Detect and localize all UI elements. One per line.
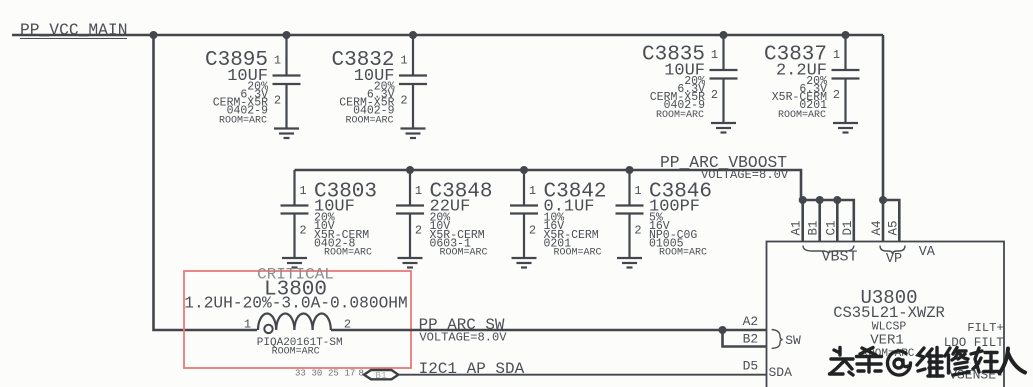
svg-text:FILT+: FILT+ <box>967 321 1004 335</box>
svg-text:ROOM=ARC: ROOM=ARC <box>324 248 372 259</box>
svg-text:ROOM=ARC: ROOM=ARC <box>272 347 320 358</box>
capacitor C3832 <box>331 49 407 127</box>
capacitor C3848 <box>415 181 493 259</box>
op-amp U3800 IC box CS35L21-XWZR <box>743 242 1005 387</box>
ground symbol (C3837) <box>833 123 858 133</box>
wire vertical feed from PP_VCC_MAIN down to L3800 <box>154 35 258 330</box>
svg-text:B1: B1 <box>375 370 387 381</box>
wire PP_VCC_MAIN rail <box>12 34 883 37</box>
svg-text:CS35L21-XWZR: CS35L21-XWZR <box>833 304 945 322</box>
ground symbol (C3848) <box>398 258 423 268</box>
node junction A1 <box>799 196 807 204</box>
inductor L3800 <box>184 279 407 358</box>
svg-text:ROOM=ARC: ROOM=ARC <box>659 248 707 259</box>
bus reference numbers <box>295 369 364 379</box>
capacitor C3895 symbol plates <box>273 76 301 85</box>
狂 <box>971 348 998 372</box>
wire VBST pin bus <box>801 200 854 242</box>
capacitor C3835 symbol plates <box>710 70 738 79</box>
svg-text:ROOM=ARC: ROOM=ARC <box>345 116 393 127</box>
capacitor C3803 symbol plates <box>281 206 309 214</box>
svg-text:1: 1 <box>400 54 407 68</box>
svg-text:1: 1 <box>833 48 840 62</box>
wire pin A1 stub <box>801 200 804 242</box>
wire C3832 pin1 to PP_VCC_MAIN rail <box>412 35 414 76</box>
watermark 头条@维修狂人 <box>830 348 1027 377</box>
svg-text:2: 2 <box>529 224 536 238</box>
capacitor C3895 <box>205 49 281 127</box>
svg-text:C1: C1 <box>824 220 838 235</box>
svg-text:33: 33 <box>295 369 306 379</box>
svg-text:2: 2 <box>400 94 407 108</box>
svg-text:SW: SW <box>785 333 801 348</box>
svg-text:2: 2 <box>274 94 281 108</box>
wire pin A4 stub <box>882 200 885 242</box>
svg-text:VA: VA <box>919 245 936 260</box>
svg-text:1: 1 <box>634 184 641 198</box>
@ <box>888 351 911 375</box>
svg-text:1: 1 <box>529 184 536 198</box>
node junction C3846 at rail <box>626 166 634 174</box>
svg-text:A5: A5 <box>886 220 900 235</box>
svg-text:1: 1 <box>244 318 251 332</box>
svg-text:ROOM=ARC: ROOM=ARC <box>778 110 826 121</box>
capacitor C3837 <box>764 44 840 122</box>
inductor L3800 winding arcs <box>258 314 331 331</box>
wire C3842 pin2 to ground <box>523 214 525 259</box>
ground symbol (C3895) <box>274 129 299 139</box>
node junction C1 <box>833 196 841 204</box>
wire PP_VCC_MAIN down to VP pins <box>882 35 885 200</box>
svg-text:D5: D5 <box>743 359 759 374</box>
node junction C3848 at rail <box>406 166 414 174</box>
svg-text:17: 17 <box>345 369 356 379</box>
wire C3837 pin2 to ground <box>844 79 846 124</box>
svg-text:ROOM=ARC: ROOM=ARC <box>440 248 488 259</box>
svg-text:1: 1 <box>415 184 422 198</box>
svg-text:A2: A2 <box>743 314 759 329</box>
svg-text:A4: A4 <box>870 220 884 235</box>
node junction C3835 at rail <box>720 31 728 39</box>
wire C3835 pin2 to ground <box>722 79 724 124</box>
wire C3848 pin1 to PP_ARC_VBOOST rail <box>409 170 411 206</box>
svg-text:2: 2 <box>415 224 422 238</box>
svg-text:1: 1 <box>711 48 718 62</box>
wire PP_ARC_VBOOST rail <box>295 170 802 200</box>
svg-text:B1: B1 <box>807 220 821 235</box>
wire C3848 pin2 to ground <box>409 214 411 259</box>
capacitor C3848 symbol plates <box>396 206 424 214</box>
node junction C3895 at rail <box>283 31 291 39</box>
ground symbol (C3832) <box>401 129 426 139</box>
wire C3803 pin2 to ground <box>293 214 295 259</box>
capacitor C3846 <box>634 181 712 259</box>
node junction SW to B2 <box>719 326 727 334</box>
ground symbol (C3842) <box>512 258 537 268</box>
node junction C3837 at rail <box>842 31 850 39</box>
node junction C3832 at rail <box>409 31 417 39</box>
capacitor C3803 <box>299 181 377 259</box>
svg-text:VBST: VBST <box>821 249 857 266</box>
wire pin C1 stub <box>836 200 839 242</box>
svg-text:ROOM=ARC: ROOM=ARC <box>554 248 602 259</box>
net label PP_ARC_VBOOST <box>660 153 789 182</box>
node junction B1 <box>816 196 824 204</box>
wire pin A4/A5 jog <box>883 200 899 242</box>
capacitor C3837 symbol plates <box>832 70 860 79</box>
wire C3846 pin1 to PP_ARC_VBOOST rail <box>628 170 630 206</box>
brace SW group <box>772 330 783 349</box>
svg-text:ROOM=ARC: ROOM=ARC <box>656 110 704 121</box>
wire I2C1_AP_SDA to pin D5 <box>398 374 766 376</box>
svg-text:1: 1 <box>299 184 306 198</box>
critical red box <box>184 271 411 368</box>
svg-text:VOLTAGE=8.0V: VOLTAGE=8.0V <box>701 168 789 182</box>
svg-text:VOLTAGE=8.0V: VOLTAGE=8.0V <box>419 331 507 345</box>
wire C3842 pin1 to PP_ARC_VBOOST rail <box>523 170 525 206</box>
维 <box>917 348 943 377</box>
node junction A4 <box>879 196 887 204</box>
svg-text:LDO FILT: LDO FILT <box>944 336 1005 350</box>
inductor L3800 polarity circle <box>264 325 272 333</box>
svg-text:B2: B2 <box>743 332 759 347</box>
svg-text:2: 2 <box>833 88 840 102</box>
svg-text:PP_VCC_MAIN: PP_VCC_MAIN <box>20 21 127 40</box>
wire pin B1 stub <box>818 200 821 242</box>
svg-text:2: 2 <box>711 88 718 102</box>
wire C3846 pin2 to ground <box>628 214 630 259</box>
capacitor C3846 symbol plates <box>616 206 644 214</box>
ground symbol (C3803) <box>282 258 307 268</box>
wire C3832 pin2 to ground <box>412 84 414 129</box>
wire C3895 pin2 to ground <box>285 84 287 129</box>
node junction C3842 at rail <box>520 166 528 174</box>
svg-text:2: 2 <box>634 224 641 238</box>
wire C3803 pin1 to PP_ARC_VBOOST rail <box>293 170 295 206</box>
条 <box>857 348 882 373</box>
ground symbol (C3846) <box>617 258 642 268</box>
ground symbol (C3835) <box>711 123 736 133</box>
修 <box>945 348 969 376</box>
capacitor C3842 <box>529 181 607 259</box>
wire C3835 pin1 to PP_VCC_MAIN rail <box>722 35 724 70</box>
svg-text:ROOM=ARC: ROOM=ARC <box>219 116 267 127</box>
svg-text:I2C1_AP_SDA: I2C1_AP_SDA <box>419 360 525 378</box>
svg-text:A1: A1 <box>790 220 804 235</box>
svg-text:8: 8 <box>359 369 364 379</box>
人 <box>1000 349 1027 375</box>
svg-text:2: 2 <box>299 224 306 238</box>
svg-text:SDA: SDA <box>769 365 793 380</box>
wire C3837 pin1 to PP_VCC_MAIN rail <box>844 35 846 70</box>
capacitor C3832 symbol plates <box>399 76 427 85</box>
node junction rail to inductor feed <box>150 31 158 39</box>
svg-text:1.2UH-20%-3.0A-0.080OHM: 1.2UH-20%-3.0A-0.080OHM <box>184 295 407 313</box>
net label PP_VCC_MAIN <box>20 21 127 40</box>
wire PP_ARC_SW from L3800 pin2 to U3800 pin A2 <box>331 329 767 332</box>
wire C3895 pin1 to PP_VCC_MAIN rail <box>285 35 287 76</box>
svg-text:VER1: VER1 <box>870 333 904 349</box>
capacitor C3835 <box>642 44 718 122</box>
svg-text:25: 25 <box>328 369 339 379</box>
brace VP group <box>880 246 905 254</box>
bus tag B1 <box>364 370 398 381</box>
svg-text:D1: D1 <box>841 220 855 235</box>
brace VBST group <box>803 246 854 254</box>
svg-text:30: 30 <box>312 369 323 379</box>
svg-text:VP: VP <box>886 252 902 267</box>
wire jog to pin B2 <box>723 330 767 347</box>
capacitor C3842 symbol plates <box>510 206 538 214</box>
头 <box>830 348 854 376</box>
svg-text:1: 1 <box>274 54 281 68</box>
